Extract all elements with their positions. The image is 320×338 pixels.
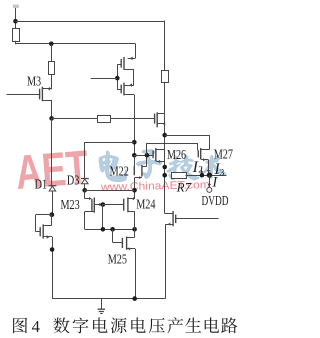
watermark blue char 4 (shu) — [202, 156, 226, 179]
caption figure number and title — [13, 317, 237, 336]
svg-text:4: 4 — [32, 317, 41, 336]
node junction bus x103 — [101, 227, 106, 232]
transistor upper-right (cascode nmos) — [155, 112, 166, 127]
wire gate stub going left — [91, 78, 118, 80]
transistor M21a (top pmos of stack) — [117, 44, 135, 86]
diode D1 — [49, 186, 57, 215]
node junction below M22 — [132, 188, 137, 193]
svg-text:www.ChinaAET.com: www.ChinaAET.com — [100, 179, 210, 193]
node junction bus x134 — [132, 227, 137, 232]
svg-text:DVDD: DVDD — [202, 195, 229, 209]
node junction x134 y142 — [132, 140, 137, 145]
wire below left resistor — [15, 41, 17, 44]
transistor bottom-right — [165, 211, 219, 226]
wire M23L source down to bottom rail — [52, 237, 54, 299]
transistor M23 — [85, 190, 103, 229]
wire top terminal to rail — [15, 8, 17, 28]
wire tie down to M27 gate — [197, 143, 199, 150]
node junction bus x112 — [110, 227, 115, 232]
node junction output big — [207, 172, 212, 177]
wire mid bus y229 — [85, 229, 135, 231]
node junction x52 y249 — [50, 247, 55, 252]
watermark blue char 2 (zi) — [137, 150, 162, 179]
node junction M3 drain — [49, 116, 54, 121]
wire resistor to right transistor gate — [110, 118, 154, 120]
wire resistor to M3 drain — [51, 74, 53, 89]
wire bottom rail — [52, 298, 165, 300]
diode D3 — [81, 179, 89, 191]
wire bottom-right source down — [165, 224, 167, 299]
node junction right rail y135 — [162, 133, 167, 138]
wire M27 top y135 — [165, 135, 210, 137]
port DVDD stem with arrow — [208, 175, 211, 187]
transistor M22 — [134, 155, 147, 190]
wire right rail down segment — [164, 113, 166, 213]
node junction M23 drain — [101, 202, 106, 207]
node junction right rail y167 — [162, 165, 167, 170]
node junction M23L top — [49, 212, 54, 217]
svg-text:2: 2 — [198, 166, 203, 176]
watermark blue char 3 (ji) — [167, 155, 199, 180]
resistor above M3 — [49, 62, 55, 75]
wire M27 drain drop — [209, 135, 211, 149]
wire right rail resistor to transistor — [164, 82, 166, 114]
watermark blue char 1 (dian) — [99, 151, 126, 181]
wire gate tie y143 — [147, 143, 198, 145]
wire D3 branch down — [84, 142, 86, 178]
transistor M3 — [7, 87, 52, 103]
transistor M21b (bottom pmos of stack) — [117, 83, 134, 96]
wire tie up to y143 — [146, 143, 148, 155]
wire node down to D1 — [51, 118, 53, 185]
node junction top-left — [13, 19, 18, 24]
wire R7 output line — [186, 175, 227, 177]
wire D3 node to M22 node — [85, 190, 135, 192]
svg-text:M27: M27 — [214, 146, 233, 162]
svg-text:M22: M22 — [110, 163, 129, 179]
transistor M26 — [153, 148, 165, 163]
label I3 — [213, 161, 224, 178]
wire x51 down to resistor — [51, 44, 53, 62]
svg-text:M3: M3 — [27, 73, 41, 89]
wire pmos stack drain down long — [134, 95, 136, 155]
wire right rail upper — [164, 21, 166, 71]
svg-text:M23: M23 — [61, 196, 80, 212]
current arrow I2 — [200, 168, 203, 174]
wire M3 to node — [51, 100, 53, 118]
ground symbol — [98, 299, 105, 314]
svg-text:M25: M25 — [108, 251, 127, 267]
wire M23 drain down — [102, 205, 104, 230]
node junction below D3 — [82, 188, 87, 193]
transistor M24 — [103, 190, 135, 229]
svg-text:3: 3 — [220, 168, 225, 178]
wire M25 source to bottom rail — [135, 249, 137, 299]
resistor right rail — [162, 71, 169, 83]
watermark AET letters — [14, 142, 91, 201]
svg-text:D1: D1 — [35, 176, 47, 192]
node junction x134 y155 — [132, 153, 137, 158]
wire second rail y44 — [15, 43, 135, 45]
svg-text:M26: M26 — [167, 146, 186, 162]
port DVDD circle — [207, 187, 212, 192]
wire to horizontal resistor — [52, 118, 98, 120]
node junction x51 y44 — [49, 42, 54, 47]
node junction tie x147 — [145, 153, 150, 158]
node junction bottom rail — [132, 296, 137, 301]
node junction right rail y175 — [162, 173, 167, 178]
resistor left top — [13, 29, 20, 42]
wire top rail — [16, 21, 165, 23]
resistor R7 — [172, 173, 187, 179]
transistor M27 — [198, 148, 210, 173]
node junction gate tie — [115, 76, 120, 81]
wire tie M26 gate y155 — [134, 155, 153, 157]
svg-text:M24: M24 — [136, 196, 155, 212]
transistor M25 — [113, 229, 136, 250]
node junction x202 — [200, 173, 205, 178]
label I2 — [192, 159, 204, 176]
resistor horizontal mid — [98, 116, 111, 123]
transistor below D1 (diode connected) — [36, 215, 53, 239]
svg-text:R7: R7 — [176, 179, 192, 194]
power rail terminal (gray pad) — [13, 5, 19, 8]
svg-text:D3: D3 — [67, 172, 79, 188]
wire gate tie of pmos stack — [117, 64, 119, 90]
wire y142 to D3 branch — [84, 142, 134, 144]
